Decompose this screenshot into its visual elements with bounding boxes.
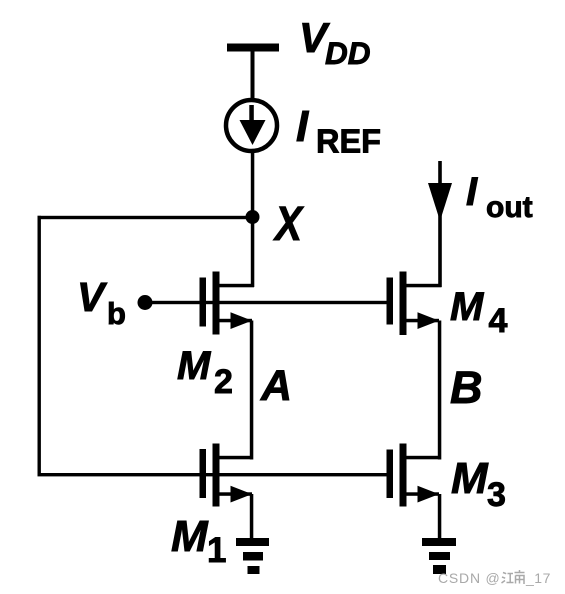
IREF arrow shaft <box>249 105 254 123</box>
wire IREF to node X <box>251 150 255 218</box>
watermark glyph nan <box>515 570 525 584</box>
transistor M2 gate bar <box>200 278 207 327</box>
IREF arrowhead <box>240 120 266 145</box>
svg-text:B: B <box>450 362 483 413</box>
transistor M1 gate bar <box>200 449 207 498</box>
svg-text:b: b <box>107 296 126 331</box>
wire node X to left (feedback top) <box>38 216 253 219</box>
ground under M3 <box>422 538 456 574</box>
svg-text:2: 2 <box>214 363 233 401</box>
wire M3 source to ground <box>438 494 442 541</box>
wire feedback left vertical <box>38 216 41 476</box>
svg-text:REF: REF <box>316 123 381 160</box>
wire node B (M4 source to M3 drain) <box>438 321 442 460</box>
svg-text:out: out <box>486 191 533 224</box>
wire Iout vertical <box>438 161 442 287</box>
wire Vb to gates of M2 M4 <box>145 301 388 304</box>
VDD supply bar <box>227 44 279 52</box>
current source IREF circle <box>226 100 277 151</box>
transistor M4 gate bar <box>387 278 394 325</box>
svg-text:M: M <box>177 344 212 388</box>
transistor M4 source leg <box>406 319 439 323</box>
node X junction dot <box>246 210 260 224</box>
transistor M2 source arrow <box>231 312 253 329</box>
svg-text:V: V <box>77 274 108 320</box>
svg-text:I: I <box>466 170 478 214</box>
transistor M3 drain leg <box>406 456 441 460</box>
svg-text:DD: DD <box>325 35 371 71</box>
transistor M1 drain leg <box>219 456 253 460</box>
svg-text:M: M <box>450 285 485 329</box>
svg-text:3: 3 <box>487 476 506 514</box>
transistor M3 channel bar <box>400 444 407 507</box>
svg-text:4: 4 <box>489 302 508 340</box>
transistor M4 channel bar <box>400 272 407 336</box>
transistor M1 source leg <box>219 492 252 496</box>
svg-text:1: 1 <box>207 531 226 570</box>
transistor M2 source leg <box>219 319 252 323</box>
transistor M3 gate bar <box>387 450 394 499</box>
svg-text:X: X <box>272 198 304 251</box>
wire M1 source to ground <box>250 494 254 541</box>
ground under M1 <box>236 538 269 574</box>
wire feedback bottom to gates of M1 M3 <box>38 473 388 476</box>
watermark glyph jiang <box>502 573 514 584</box>
svg-text:I: I <box>296 102 309 151</box>
svg-text:CSDN @: CSDN @ <box>438 570 501 586</box>
svg-text:A: A <box>260 362 292 410</box>
transistor M3 source leg <box>406 492 439 496</box>
svg-text:_17: _17 <box>525 570 551 586</box>
transistor M4 source arrow <box>418 312 440 329</box>
Iout arrowhead <box>428 183 452 221</box>
node Vb dot <box>138 295 153 310</box>
wire node A (M2 source to M1 drain) <box>250 321 254 460</box>
transistor M2 channel bar <box>213 272 220 335</box>
wire VDD to IREF <box>251 50 255 102</box>
svg-text:M: M <box>451 454 489 503</box>
transistor M1 source arrow <box>231 486 253 503</box>
transistor M2 drain leg <box>219 284 254 288</box>
svg-text:M: M <box>171 512 209 561</box>
transistor M4 drain leg <box>406 284 442 288</box>
transistor M3 source arrow <box>418 486 440 503</box>
transistor M1 channel bar <box>213 444 220 507</box>
wire node X down to M2 drain <box>251 217 255 287</box>
